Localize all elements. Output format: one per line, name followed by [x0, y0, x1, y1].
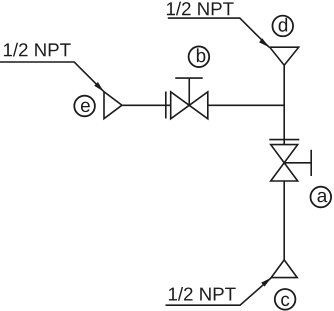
union flange at valve b inlet	[165, 92, 167, 119]
balloon c	[275, 289, 296, 310]
wire from valve a down to port c	[283, 181, 285, 260]
valve a stem and handle	[284, 150, 311, 176]
wire from valve b to tee junction	[208, 104, 284, 106]
union flange at valve a inlet	[269, 139, 299, 141]
port c triangle	[271, 260, 297, 278]
label "1/2 NPT" (top port d)	[167, 2, 234, 16]
label "1/2 NPT" (bottom port c)	[169, 287, 236, 301]
port e triangle	[104, 92, 122, 119]
valve b stem and handle	[175, 78, 202, 105]
label "1/2 NPT" (left port e)	[4, 43, 71, 57]
wire from port e to valve b	[122, 104, 171, 106]
valve b body	[171, 92, 208, 119]
wire from port d down to tee and valve a	[283, 65, 285, 144]
port d triangle	[270, 47, 299, 65]
wire leader to port e	[0, 62, 104, 92]
balloon a	[311, 187, 332, 208]
balloon b	[189, 46, 210, 67]
balloon d	[272, 16, 293, 37]
wire leader to port d	[168, 18, 269, 47]
balloon e	[74, 96, 95, 117]
wire leader to port c	[166, 278, 272, 306]
valve a body	[271, 145, 298, 181]
